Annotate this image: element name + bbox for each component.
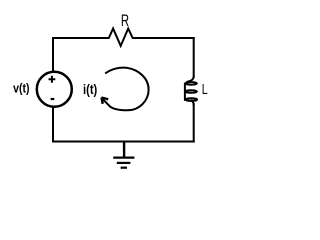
svg-text:L: L	[202, 82, 208, 98]
svg-text:R: R	[121, 12, 129, 30]
svg-text:i(t): i(t)	[83, 81, 97, 97]
svg-text:v(t): v(t)	[13, 81, 29, 95]
